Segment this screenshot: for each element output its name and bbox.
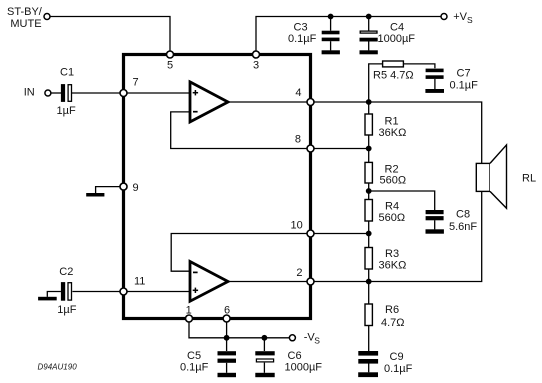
wire pin 2 line to speaker bottom (311, 191, 482, 281)
wire C3 drop from rail (330, 17, 332, 31)
resistor R6 (365, 304, 372, 326)
svg-text:2: 2 (296, 267, 302, 279)
svg-text:560Ω: 560Ω (379, 212, 406, 224)
op-amp U1B (190, 262, 228, 302)
wire R4 top (368, 191, 370, 200)
pin 9 (120, 183, 127, 190)
svg-text:+V: +V (453, 11, 467, 23)
wire node A (pin4) up to R5 left (369, 64, 383, 102)
svg-text:R4: R4 (385, 201, 399, 213)
svg-text:0.1µF: 0.1µF (288, 33, 317, 45)
terminal ST-BY/MUTE (44, 14, 50, 20)
wire pin 11 to op-amp U1B + input (124, 291, 191, 293)
wire C9 to ground (368, 363, 370, 372)
capacitor C9 (358, 351, 378, 364)
wire R1 top (368, 102, 370, 114)
svg-text:1: 1 (186, 305, 192, 317)
node: rail junction C4 (366, 14, 372, 20)
svg-text:10: 10 (291, 220, 303, 232)
wire C3 to ground (330, 41, 332, 50)
resistor R3 (365, 248, 372, 270)
pin 10 (307, 230, 314, 237)
IC body U1 (124, 55, 311, 319)
svg-text:36KΩ: 36KΩ (379, 260, 407, 272)
wire pin 10 to R4/R3 node (311, 233, 369, 235)
wire pin 8 to R1/R2 node (311, 148, 369, 150)
wire op-amp U1B output to pin 2 (228, 281, 311, 283)
wire R6 top (368, 282, 370, 305)
node: pin 2 / R3 / R6 (366, 279, 372, 285)
wire C1 to pin 7 (72, 92, 124, 94)
svg-text:0.1µF: 0.1µF (384, 363, 413, 375)
wire pin 9 to ground (96, 187, 124, 193)
wire R6 bottom to C9 (368, 326, 370, 352)
pin 11 (120, 288, 127, 295)
wire C7 to ground (434, 79, 436, 89)
svg-text:S: S (467, 15, 473, 25)
wire pin 7 to op-amp U1A + input (124, 92, 191, 94)
svg-text:1000µF: 1000µF (378, 33, 416, 45)
svg-text:C6: C6 (288, 350, 302, 362)
node: R2 / R4 / C8 (366, 188, 372, 194)
wire pin 6 drop (226, 319, 228, 338)
ground (C8) (426, 229, 444, 233)
wire R3 top (368, 234, 370, 248)
svg-text:11: 11 (134, 276, 145, 288)
svg-text:5.6nF: 5.6nF (449, 221, 477, 233)
node: pin 4 / R5 / R1 (366, 99, 372, 105)
svg-text:36KΩ: 36KΩ (379, 127, 407, 139)
svg-text:C2: C2 (59, 266, 73, 278)
wire C8 to ground (434, 220, 436, 229)
wire C5 to ground (226, 363, 228, 373)
wire node R2/R4 to C8 (369, 191, 435, 210)
pin 2 (307, 278, 314, 285)
wire R2 bottom to node (368, 183, 370, 191)
capacitor C6 (electrolytic) (255, 351, 274, 362)
ground (C3) (322, 50, 340, 54)
svg-text:1µF: 1µF (57, 304, 76, 316)
terminal -Vs (289, 335, 295, 341)
svg-text:9: 9 (133, 182, 139, 194)
pin 8 (307, 145, 314, 152)
resistor R4 (365, 200, 372, 222)
svg-text:560Ω: 560Ω (380, 175, 407, 187)
wire op-amp U1A output to pin 4 (228, 101, 311, 103)
ground (pin 9) (86, 193, 104, 197)
svg-text:C3: C3 (294, 22, 308, 34)
svg-text:RL: RL (522, 173, 536, 185)
svg-text:D94AU190: D94AU190 (38, 363, 78, 372)
wire pin 4 line to speaker top (311, 102, 482, 163)
svg-text:C5: C5 (187, 350, 201, 362)
wire C5 drop (226, 338, 228, 351)
terminal +Vs (441, 14, 447, 20)
ground (C2) (38, 297, 57, 301)
wire pin 3 riser to +Vs rail (256, 17, 441, 52)
wire pin 1 drop to -Vs rail (189, 319, 290, 338)
svg-text:R3: R3 (385, 248, 399, 260)
svg-text:C1: C1 (60, 67, 74, 79)
svg-text:R1: R1 (385, 116, 399, 128)
resistor R1 (365, 114, 372, 135)
ground (C5) (218, 373, 237, 377)
wire C6 to ground (263, 363, 265, 373)
ground (C9) (358, 372, 378, 377)
node: -Vs rail C5 (224, 335, 230, 341)
capacitor C3 (322, 31, 340, 41)
wire R2 top (368, 149, 370, 163)
svg-text:7: 7 (133, 77, 139, 89)
wire C6 drop (263, 338, 265, 351)
pin 3 (253, 51, 260, 58)
svg-text:R5 4.7Ω: R5 4.7Ω (373, 69, 414, 81)
wire C2 to pin 11 (72, 291, 123, 293)
svg-text:ST-BY/: ST-BY/ (7, 6, 43, 18)
wire ST-BY/MUTE to pin 5 (50, 17, 170, 52)
wire R1 bottom to node (368, 135, 370, 149)
svg-text:6: 6 (224, 305, 230, 317)
wire C2 to ground (47, 292, 61, 297)
op-amp U1A (190, 82, 228, 122)
ground (C6) (255, 373, 274, 377)
node: -Vs rail C6 (262, 335, 268, 341)
wire IN to C1 (51, 92, 61, 94)
pin 1 (186, 315, 193, 322)
pin 6 (223, 315, 230, 322)
node: rail junction C3 (328, 14, 334, 20)
wire op-amp U1A - input feedback to pin 8 (171, 112, 311, 149)
speaker RL (476, 145, 506, 208)
svg-text:0.1µF: 0.1µF (180, 362, 209, 374)
node: pin 10 / R4 / R3 (366, 231, 372, 237)
svg-text:8: 8 (295, 134, 301, 146)
capacitor C2 (61, 282, 72, 301)
node: pin 8 / R1 / R2 (366, 146, 372, 152)
svg-text:1000µF: 1000µF (285, 362, 323, 374)
svg-text:MUTE: MUTE (10, 18, 41, 30)
svg-text:C8: C8 (456, 209, 470, 221)
ground (C7) (425, 89, 444, 93)
svg-text:C7: C7 (457, 68, 471, 80)
resistor R5 (383, 61, 404, 67)
wire R4 bottom to node (368, 221, 370, 234)
capacitor C7 (426, 69, 444, 79)
svg-text:R6: R6 (385, 304, 399, 316)
svg-text:IN: IN (24, 86, 35, 98)
svg-text:5: 5 (167, 60, 173, 72)
svg-text:S: S (314, 336, 320, 346)
capacitor C4 (electrolytic) (360, 31, 378, 41)
resistor R2 (365, 162, 372, 183)
svg-text:4: 4 (295, 87, 301, 99)
wire R5 right to C7 (403, 64, 435, 68)
svg-text:1µF: 1µF (57, 105, 76, 117)
pin 4 (307, 99, 314, 106)
svg-text:0.1µF: 0.1µF (450, 80, 479, 92)
svg-text:C9: C9 (390, 351, 404, 363)
capacitor C5 (218, 351, 237, 363)
ground (C4) (360, 50, 378, 54)
wire R3 bottom to node (368, 269, 370, 282)
capacitor C8 (426, 210, 444, 220)
capacitor C1 (61, 84, 72, 102)
wire op-amp U1B - input feedback to pin 10 (171, 234, 310, 272)
wire C4 to ground (368, 42, 370, 51)
input terminal IN (45, 90, 51, 96)
pin 5 (167, 51, 174, 58)
svg-text:C4: C4 (390, 22, 404, 34)
svg-text:3: 3 (253, 60, 259, 72)
pin 7 (120, 90, 127, 97)
svg-text:4.7Ω: 4.7Ω (381, 317, 405, 329)
wire C4 drop from rail (368, 17, 370, 31)
